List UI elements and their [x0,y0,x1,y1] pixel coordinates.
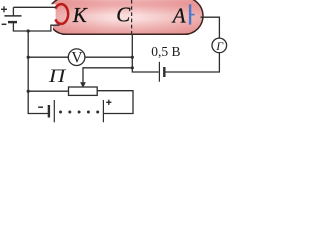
svg-text:А: А [171,4,186,28]
svg-text:0,5 В: 0,5 В [151,44,180,59]
svg-text:V: V [71,50,83,67]
svg-text:П: П [48,66,67,87]
svg-text:C: C [116,3,131,27]
svg-text:Г: Г [215,39,224,53]
svg-text:К: К [72,3,88,27]
